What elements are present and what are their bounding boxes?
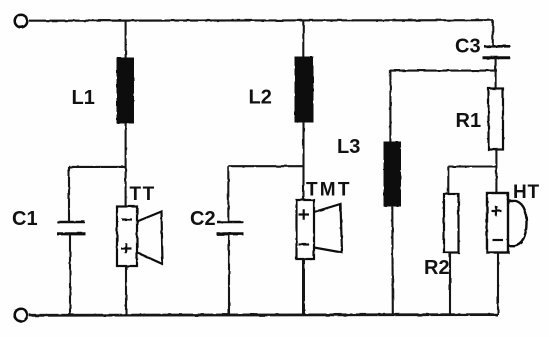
svg-text:C2: C2 <box>190 208 216 230</box>
wire branch to R2 <box>447 167 449 195</box>
wire R1 to HT <box>495 150 497 194</box>
svg-text:HT: HT <box>513 182 540 203</box>
capacitor C1 <box>57 222 86 234</box>
wire C3 to R1 <box>495 58 497 89</box>
wire C1 branch <box>69 166 126 168</box>
svg-text:TT: TT <box>130 184 156 205</box>
capacitor C2 <box>217 222 244 234</box>
speaker TMT <box>297 200 343 259</box>
wire TT to bottom rail <box>125 266 127 315</box>
wire top rail to C3 <box>492 20 494 46</box>
wire L1 to TT <box>125 123 127 206</box>
inductor L2 <box>295 57 313 122</box>
svg-text:L3: L3 <box>337 136 360 158</box>
svg-text:R2: R2 <box>424 257 450 279</box>
resistor R1 <box>489 89 504 150</box>
inductor L1 <box>117 58 134 123</box>
wire branch to C1 <box>68 167 70 221</box>
svg-text:C3: C3 <box>455 36 481 58</box>
speaker HT <box>487 193 527 253</box>
wire C2 to bottom rail <box>228 234 230 315</box>
wire C1 to bottom rail <box>69 234 71 315</box>
wire top rail to L2 <box>302 21 304 57</box>
capacitor C3 <box>483 46 511 58</box>
wire L3 to bottom rail <box>391 206 394 315</box>
inductor L3 <box>384 142 401 206</box>
wire HT to bottom rail <box>497 253 499 316</box>
svg-text:L1: L1 <box>72 87 95 109</box>
wire R2 to bottom rail <box>449 253 451 316</box>
wire TMT to bottom rail <box>302 259 305 315</box>
wire branch to C2 <box>227 166 229 221</box>
terminal top-left <box>15 15 28 28</box>
wire bottom rail <box>29 313 498 316</box>
svg-text:TMT: TMT <box>306 180 352 201</box>
wire R2 branch <box>448 165 496 167</box>
wire L3 top branch <box>390 70 497 72</box>
wire C2 branch <box>228 165 303 167</box>
wire L2 to TMT <box>302 122 304 200</box>
svg-text:R1: R1 <box>456 110 482 132</box>
wire top rail <box>29 19 493 22</box>
svg-text:L2: L2 <box>249 87 272 109</box>
wire branch to L3 <box>389 71 391 142</box>
speaker TT <box>117 207 163 267</box>
wire top rail to L1 <box>125 21 127 58</box>
terminal bottom-left <box>15 309 28 322</box>
svg-text:C1: C1 <box>12 208 38 230</box>
resistor R2 <box>444 194 459 253</box>
